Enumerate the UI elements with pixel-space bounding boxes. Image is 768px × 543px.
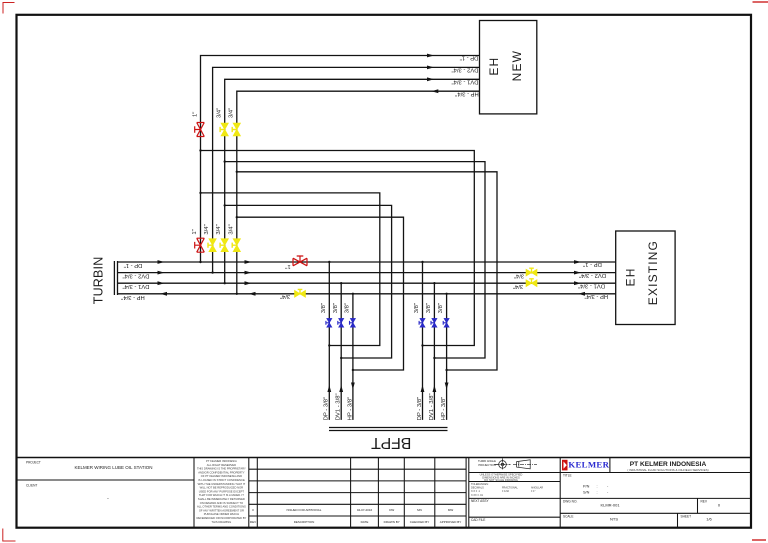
svg-text:DECIMALS: DECIMALS (471, 487, 484, 490)
arrows on main lines mid-left (245, 260, 256, 296)
revision table row 5 (252, 508, 453, 512)
wire DP main line L1 (118, 261, 616, 263)
valve V10 yellow 3/4" on DV2 near EH EXISTING (526, 269, 537, 276)
svg-text:DW: DW (389, 508, 394, 512)
arrows on BFPT drops (327, 383, 448, 393)
svg-text:3/4": 3/4" (204, 224, 210, 234)
valve V1 red 1" on riser1 top (195, 123, 205, 137)
svg-text:DWG NO.: DWG NO. (563, 500, 577, 504)
wire BFPT drop D6 right HP (446, 294, 448, 420)
svg-text:3/8": 3/8" (321, 303, 327, 313)
valve V9 yellow 3/4" on main HP line (295, 291, 306, 298)
svg-text:ANGULAR: ANGULAR (531, 487, 543, 490)
svg-text:3/8": 3/8" (333, 303, 339, 313)
svg-text:DV2 - 3/4": DV2 - 3/4" (579, 272, 606, 278)
wire DV2 main line L2 (118, 272, 616, 274)
svg-text:S/N: S/N (583, 491, 590, 495)
svg-text:MN: MN (417, 508, 422, 512)
wire nested branch N3 riser4 to BFPT right HP (237, 172, 497, 370)
revision table header row (250, 520, 461, 524)
arrows on EH NEW feed lines (427, 54, 438, 94)
valve B2 blue 3/8" on drop D2 (339, 318, 344, 327)
svg-text:3/4": 3/4" (280, 293, 290, 299)
wire riser R1 to EH NEW DP (201, 56, 480, 263)
svg-text:PT KELMER INDONESIA: PT KELMER INDONESIA (630, 461, 707, 468)
svg-text:PROJECTION: PROJECTION (478, 463, 495, 467)
svg-text:HP - 3/4": HP - 3/4" (121, 294, 145, 300)
junction dots (199, 149, 447, 371)
svg-text:PT KELMER INDONESIA: PT KELMER INDONESIA (206, 459, 237, 463)
svg-text:EH: EH (487, 57, 501, 76)
svg-text:THIS DRAWING IS THE PROPRIETAR: THIS DRAWING IS THE PROPRIETARY (197, 467, 246, 471)
wire DV1 main line L3 (118, 282, 616, 284)
svg-text:KLMR-001: KLMR-001 (600, 502, 620, 507)
svg-text:3/8": 3/8" (438, 303, 444, 313)
wire nested branch N6 riser4 to BFPT left HP (237, 217, 404, 370)
svg-text:ALL OTHER TERMS AND CONDITIONS: ALL OTHER TERMS AND CONDITIONS (197, 505, 246, 509)
svg-text:CLIENT: CLIENT (26, 484, 37, 488)
valve V2 yellow 3/4" on riser3 top (221, 123, 228, 136)
BFPT boundary double line (329, 428, 448, 431)
valve V11 yellow 3/4" on DV1 near EH EXISTING (526, 280, 537, 287)
svg-text:04-07-2016: 04-07-2016 (357, 508, 373, 512)
svg-text:FRACTIONAL: FRACTIONAL (502, 487, 518, 490)
svg-text:OF ANY WRITTEN AGREEMENT OR: OF ANY WRITTEN AGREEMENT OR (199, 508, 244, 512)
turbine boundary double line (114, 261, 117, 295)
svg-text:DESCRIPTION: DESCRIPTION (294, 520, 315, 524)
svg-text:OF PT KELMER INDONESIA AND: OF PT KELMER INDONESIA AND (201, 474, 242, 478)
svg-text:KELMER: KELMER (568, 460, 609, 470)
tolerance block (471, 483, 543, 497)
wire riser R4 to EH NEW HP (237, 91, 480, 294)
title block grid (17, 457, 752, 459)
svg-text:WILL NOT BE REPRODUCED NOR: WILL NOT BE REPRODUCED NOR (200, 486, 244, 490)
valve V5 yellow 3/4" on riser2 bottom (209, 239, 216, 252)
svg-text::: : (597, 484, 598, 488)
svg-text:DV2 - 3/4": DV2 - 3/4" (452, 67, 479, 73)
svg-text:DP - 1": DP - 1" (124, 262, 143, 268)
wire nested branch N2 riser3 to BFPT right DV1 (225, 162, 485, 358)
wire BFPT drop D3 left HP (352, 294, 354, 420)
svg-text:CAD FILE: CAD FILE (471, 518, 485, 522)
svg-text:3/4": 3/4" (216, 224, 222, 234)
svg-text:PURCHASE ORDER WHICH: PURCHASE ORDER WHICH (204, 512, 239, 516)
svg-text:3/8": 3/8" (345, 303, 351, 313)
svg-text:X.XX ± .01: X.XX ± .01 (471, 494, 484, 497)
wire BFPT drop D2 left DV1 (340, 283, 342, 420)
corner mark top-right (753, 1, 768, 3)
svg-text:± 1/32: ± 1/32 (502, 490, 510, 493)
svg-text:1": 1" (285, 263, 290, 269)
svg-text:X.X ± .1: X.X ± .1 (471, 490, 480, 493)
svg-text:ISSUED FOR APPROVAL: ISSUED FOR APPROVAL (287, 508, 322, 512)
svg-text:NEW: NEW (510, 50, 524, 82)
svg-text:3/4": 3/4" (216, 108, 222, 118)
svg-text:DP - 3/8": DP - 3/8" (417, 397, 423, 421)
svg-text:WITH THE UNDERSTANDING THAT IT: WITH THE UNDERSTANDING THAT IT (198, 482, 246, 486)
svg-text:EXISTING: EXISTING (646, 240, 660, 305)
wire BFPT drop D4 right DP (422, 262, 424, 420)
wire BFPT drop D1 left DP (328, 262, 330, 420)
svg-text:SHEET: SHEET (681, 515, 692, 519)
svg-text:DV1 - 3/8": DV1 - 3/8" (429, 393, 435, 420)
svg-text:DP - 3/8": DP - 3/8" (324, 397, 330, 421)
wire nested branch N4 riser1 to BFPT left DP (201, 193, 380, 346)
svg-text:TITLE: TITLE (563, 474, 572, 478)
svg-text:1": 1" (193, 112, 199, 117)
svg-text:DRAWN BY: DRAWN BY (384, 520, 400, 524)
svg-text:REFERENCED OR INCORPORATED BY: REFERENCED OR INCORPORATED BY (196, 516, 246, 520)
valve V8 red 1" on main DP line (293, 256, 307, 266)
corner mark bottom-right (752, 539, 766, 541)
svg-text:ALL RIGHT RESERVED: ALL RIGHT RESERVED (207, 463, 236, 467)
wire HP main line L4 (118, 293, 616, 295)
wire riser R3 to EH NEW DV1 (225, 79, 480, 283)
svg-text:IS LOANED IN STRICT CONFIDENCE: IS LOANED IN STRICT CONFIDENCE (198, 478, 245, 482)
svg-text:MW: MW (448, 508, 453, 512)
valve B6 blue 3/8" on drop D6 (444, 318, 449, 327)
svg-text:3/4": 3/4" (228, 108, 234, 118)
disclaimer block (196, 459, 246, 524)
arrows on main lines near EH EXISTING (574, 260, 585, 296)
valve B5 blue 3/8" on drop D5 (432, 318, 437, 327)
component EH NEW box U1 (480, 21, 537, 114)
svg-text:DV1 - 3/8": DV1 - 3/8" (336, 393, 342, 420)
wire riser R2 to EH NEW DV2 (213, 67, 480, 272)
svg-text:1/6: 1/6 (706, 517, 712, 522)
svg-text:APPROVED BY: APPROVED BY (440, 520, 462, 524)
valve B1 blue 3/8" on drop D1 (327, 318, 332, 327)
component EH EXISTING box U2 (616, 231, 675, 325)
svg-text:DV1 - 3/4": DV1 - 3/4" (452, 79, 479, 85)
svg-text:KELMER WIRING LUBE OIL STATION: KELMER WIRING LUBE OIL STATION (75, 465, 153, 470)
wire nested branch N5 riser3 to BFPT left DV1 (225, 205, 392, 358)
svg-text:HP - 3/8": HP - 3/8" (347, 397, 353, 421)
svg-text:1": 1" (192, 229, 198, 234)
svg-text:REV: REV (701, 500, 708, 504)
svg-text:DP - 1": DP - 1" (583, 261, 602, 267)
projection symbol (495, 458, 538, 470)
svg-text:P/N: P/N (583, 484, 590, 488)
valve V6 yellow 3/4" on riser3 bottom (221, 239, 228, 252)
svg-text:NEXT ASSY: NEXT ASSY (471, 499, 490, 503)
svg-text:DV2 - 3/4": DV2 - 3/4" (123, 273, 150, 279)
svg-text:REV: REV (250, 520, 256, 524)
svg-text:THIS DRAWING: THIS DRAWING (212, 520, 232, 524)
wire BFPT drop D5 right DV1 (433, 283, 435, 420)
svg-text:± 1°: ± 1° (531, 490, 535, 493)
valve B4 blue 3/8" on drop D4 (420, 318, 425, 327)
valve V4 red 1" on riser1 bottom (195, 238, 205, 252)
svg-text:HP - 3/8": HP - 3/8" (441, 397, 447, 421)
valve V3 yellow 3/4" on riser4 top (233, 123, 240, 136)
svg-text:ON DEMAND AND IS SUBJECT TO: ON DEMAND AND IS SUBJECT TO (200, 501, 243, 505)
svg-text:PROJECT: PROJECT (26, 461, 41, 465)
svg-text:EH: EH (624, 267, 638, 286)
svg-text:AND/OR CONFIDENTIAL PROPERTY: AND/OR CONFIDENTIAL PROPERTY (198, 470, 244, 474)
svg-text:THAT FOR WHICH IT IS LOANED. I: THAT FOR WHICH IT IS LOANED. IT (199, 493, 244, 497)
arrows on main lines near turbine (158, 260, 168, 296)
svg-text:3/4": 3/4" (513, 283, 523, 289)
svg-text:THIRD ANGLE: THIRD ANGLE (478, 459, 496, 463)
KELMER logo (562, 460, 610, 471)
svg-text:TOLERANCES:: TOLERANCES: (471, 483, 489, 486)
wire nested branch N1 riser1 to BFPT right DP (201, 151, 475, 346)
valve V7 yellow 3/4" on riser4 bottom (233, 239, 240, 252)
svg-text:3/4": 3/4" (228, 224, 234, 234)
svg-text:HP - 3/4": HP - 3/4" (455, 90, 479, 96)
svg-text:NTS: NTS (610, 517, 618, 522)
svg-text:SCALE: SCALE (563, 515, 573, 519)
svg-text:( INDUSTRIAL FLUID SOLUTIONS &: ( INDUSTRIAL FLUID SOLUTIONS & OILFIELD … (627, 468, 708, 472)
valve B3 blue 3/8" on drop D3 (350, 318, 355, 327)
svg-text:DATE: DATE (361, 520, 369, 524)
svg-text::: : (597, 491, 598, 495)
dims note block (480, 472, 523, 482)
corner mark top-left (3, 3, 15, 14)
svg-text:CHECKED BY: CHECKED BY (410, 520, 430, 524)
corner mark bottom-left (3, 529, 16, 542)
svg-text:USED FOR ANY PURPOSE EXCEPT: USED FOR ANY PURPOSE EXCEPT (199, 489, 245, 493)
svg-text:DV1 - 3/4": DV1 - 3/4" (578, 282, 605, 288)
svg-text:SHALL BE IMMEDIATELY RETURNED: SHALL BE IMMEDIATELY RETURNED (198, 497, 245, 501)
svg-text:DP - 1": DP - 1" (460, 55, 479, 61)
svg-text:BFPT: BFPT (371, 434, 412, 451)
svg-text:DV1 - 3/4": DV1 - 3/4" (123, 283, 150, 289)
svg-text:DO NOT SCALE DRAWING: DO NOT SCALE DRAWING (484, 478, 518, 482)
svg-text:3/8": 3/8" (414, 303, 420, 313)
svg-text:3/4": 3/4" (514, 272, 524, 278)
svg-text:3/8": 3/8" (426, 303, 432, 313)
svg-text:HP - 3/4": HP - 3/4" (585, 293, 609, 299)
svg-text:TURBIN: TURBIN (92, 257, 106, 305)
